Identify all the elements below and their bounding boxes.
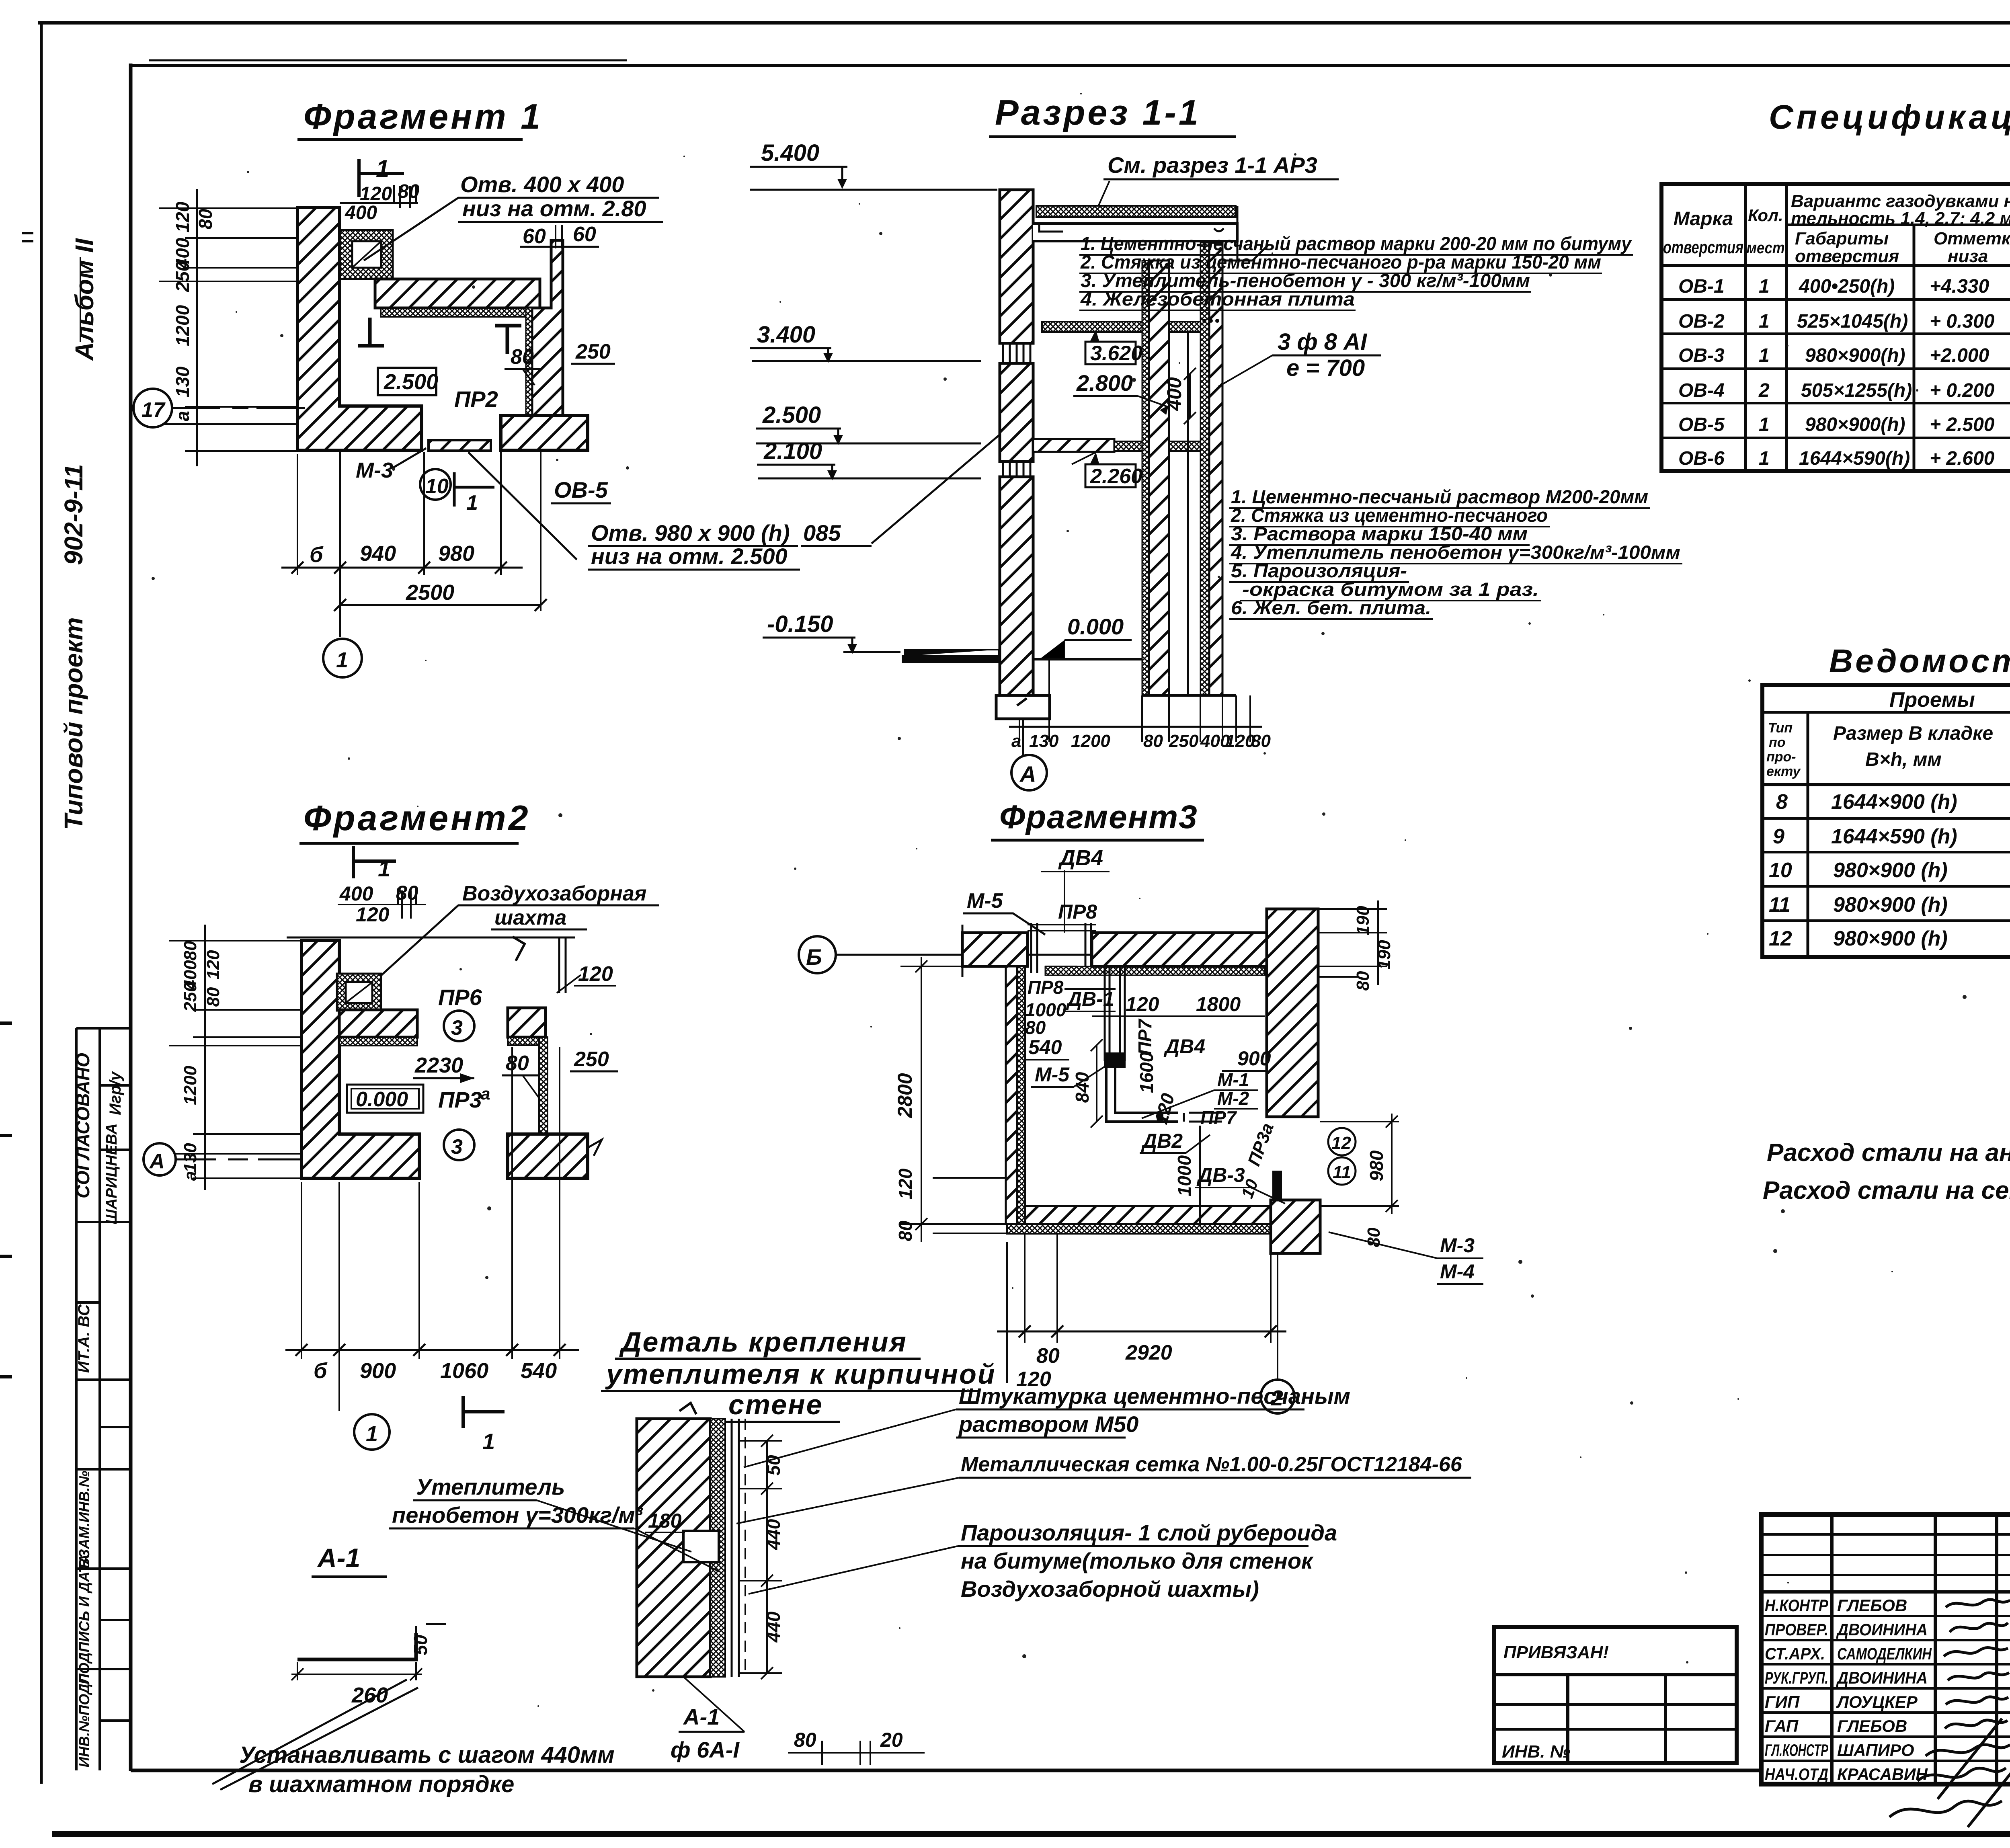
- svg-text:ОВ-6: ОВ-6: [1678, 448, 1725, 469]
- drawing frame left: [129, 64, 133, 1771]
- svg-text:САМОДЕЛКИН: САМОДЕЛКИН: [1837, 1644, 1932, 1663]
- left margin stamp column: [76, 1028, 131, 1770]
- svg-text:1644×900 (h): 1644×900 (h): [1831, 790, 1957, 814]
- svg-text:80: 80: [1036, 1344, 1060, 1368]
- svg-text:ПР3: ПР3: [438, 1087, 482, 1112]
- svg-text:+ 0.200: + 0.200: [1930, 380, 1995, 401]
- svg-text:1800: 1800: [1196, 993, 1241, 1015]
- PR6 lintel: [339, 1010, 417, 1037]
- svg-text:М-5: М-5: [967, 889, 1003, 913]
- svg-text:2.500: 2.500: [384, 370, 438, 394]
- left wall + bottom bar: [301, 941, 419, 1178]
- svg-text:-0.150: -0.150: [767, 611, 833, 637]
- svg-text:900: 900: [360, 1359, 396, 1383]
- plaster lines: [732, 1419, 739, 1677]
- bottom dim extension lines: [1019, 659, 1250, 742]
- svg-text:5.400: 5.400: [761, 140, 819, 166]
- svg-text:ДВ-3: ДВ-3: [1196, 1164, 1245, 1186]
- svg-text:1: 1: [366, 1422, 378, 1446]
- svg-text:ДВ2: ДВ2: [1141, 1130, 1183, 1152]
- svg-text:Б: Б: [806, 944, 822, 970]
- svg-text:Отметка: Отметка: [1934, 229, 2010, 248]
- drawing frame bottom: [131, 1769, 1762, 1772]
- svg-text:про-: про-: [1766, 749, 1796, 765]
- svg-text:120: 120: [1225, 731, 1255, 751]
- elevation 3.620: [1085, 342, 1136, 364]
- svg-text:в шахматном порядке: в шахматном порядке: [248, 1771, 514, 1797]
- right wall layered assembly: [1142, 260, 1149, 695]
- svg-text:М-1: М-1: [1217, 1069, 1249, 1090]
- svg-text:низа: низа: [1948, 246, 1988, 266]
- svg-text:980: 980: [1366, 1150, 1387, 1181]
- right wall: [532, 240, 563, 416]
- svg-text:2500: 2500: [406, 580, 454, 605]
- svg-text:1: 1: [1759, 276, 1770, 297]
- axis circle 1: [354, 1414, 390, 1450]
- corner marks: [358, 318, 384, 346]
- svg-text:980×900 (h): 980×900 (h): [1833, 859, 1948, 882]
- svg-text:440: 440: [763, 1519, 784, 1550]
- svg-text:Отв. 980 х 900 (h): Отв. 980 х 900 (h): [591, 520, 790, 546]
- svg-text:ГЛЕБОВ: ГЛЕБОВ: [1837, 1596, 1907, 1615]
- svg-text:шахта: шахта: [494, 906, 566, 929]
- svg-text:525×1045(h): 525×1045(h): [1797, 311, 1908, 332]
- circled 12 / 11: [1328, 1128, 1356, 1155]
- svg-text:+ 0.300: + 0.300: [1930, 311, 1995, 332]
- svg-text:А: А: [1019, 761, 1036, 787]
- circled 10 flag: [420, 469, 451, 500]
- M-3 plate strip: [429, 440, 491, 451]
- elevation box 2.500: [378, 368, 436, 395]
- svg-text:3.620: 3.620: [1090, 342, 1142, 365]
- svg-text:Воздухозаборная: Воздухозаборная: [462, 882, 646, 905]
- svg-text:1: 1: [1759, 345, 1770, 366]
- bottom wall: [1025, 1206, 1271, 1224]
- svg-text:ПР6: ПР6: [438, 985, 482, 1010]
- svg-text:440: 440: [763, 1611, 784, 1643]
- svg-text:стене: стене: [728, 1389, 823, 1420]
- svg-text:250: 250: [180, 982, 200, 1012]
- svg-text:1600: 1600: [1136, 1052, 1157, 1093]
- svg-text:085: 085: [803, 520, 841, 546]
- svg-text:120: 120: [360, 183, 392, 205]
- svg-text:80: 80: [895, 1220, 916, 1241]
- svg-text:ОВ-3: ОВ-3: [1678, 345, 1725, 366]
- svg-text:130: 130: [172, 366, 193, 397]
- svg-text:250: 250: [1169, 731, 1199, 751]
- svg-text:отверстия: отверстия: [1795, 246, 1899, 266]
- svg-text:М-5: М-5: [1035, 1063, 1070, 1086]
- svg-text:120: 120: [203, 950, 223, 980]
- slanted leaders: [212, 1680, 418, 1790]
- svg-text:20: 20: [880, 1729, 903, 1751]
- svg-text:2.500: 2.500: [762, 402, 821, 428]
- svg-text:ПРОВЕР.: ПРОВЕР.: [1765, 1620, 1828, 1639]
- signatures squiggles: [1889, 1600, 2010, 1827]
- wall footing: [996, 695, 1050, 719]
- svg-text:ГЛЕБОВ: ГЛЕБОВ: [1837, 1717, 1907, 1735]
- svg-text:ПР8: ПР8: [1058, 900, 1097, 923]
- svg-text:2230: 2230: [414, 1053, 463, 1077]
- svg-text:80: 80: [1353, 971, 1373, 991]
- svg-text:+ 2.600: + 2.600: [1930, 448, 1995, 469]
- svg-text:130: 130: [1029, 731, 1059, 751]
- svg-text:Фрагмент3: Фрагмент3: [999, 799, 1198, 835]
- svg-text:а: а: [172, 411, 193, 421]
- svg-text:12: 12: [1331, 1133, 1351, 1153]
- axis circle A: [144, 1143, 176, 1175]
- brick wall hatched: [637, 1419, 710, 1677]
- svg-text:+4.330: +4.330: [1930, 276, 1989, 297]
- svg-text:2.100: 2.100: [763, 438, 822, 464]
- svg-text:КРАСАВИН: КРАСАВИН: [1837, 1765, 1928, 1784]
- lintel bar over room: [375, 279, 540, 308]
- svg-text:12: 12: [1769, 927, 1792, 950]
- svg-text:3.400: 3.400: [757, 322, 815, 348]
- svg-text:ЛОУЦКЕР: ЛОУЦКЕР: [1836, 1692, 1918, 1711]
- svg-text:980×900 (h): 980×900 (h): [1833, 927, 1948, 950]
- data rows: [1678, 276, 2010, 469]
- svg-text:Расход стали на анкера А-1: Расход стали на анкера А-1 - 20кг: [1767, 1139, 2010, 1167]
- svg-text:ДВОИНИНА: ДВОИНИНА: [1836, 1620, 1928, 1639]
- svg-text:Вариантс газодувками на произв: Вариантс газодувками на произвоби-: [1791, 191, 2010, 211]
- svg-text:1644×590(h): 1644×590(h): [1799, 448, 1910, 469]
- svg-text:б: б: [310, 543, 324, 567]
- sheet outer border top: [38, 21, 2010, 25]
- svg-text:ШАПИРО: ШАПИРО: [1837, 1741, 1914, 1760]
- bottom right block: [1271, 1200, 1320, 1253]
- svg-text:0.000: 0.000: [356, 1088, 408, 1111]
- svg-text:Ведомость проемов ворот и двер: Ведомость проемов ворот и дверей: [1829, 643, 2010, 679]
- window tick marks in wall gaps: [1003, 344, 1030, 363]
- ground line under right wall: [1142, 694, 1236, 697]
- svg-text:250: 250: [574, 1048, 609, 1071]
- inner insulation strip under top wall: [1045, 966, 1265, 975]
- right 980 dim: [1320, 1122, 1399, 1206]
- roof slab: [1036, 206, 1236, 217]
- left wall: [1006, 966, 1017, 1224]
- svg-text:400: 400: [345, 202, 377, 224]
- svg-text:250: 250: [575, 340, 611, 363]
- svg-text:1: 1: [376, 155, 389, 182]
- axis circle B: [799, 936, 836, 973]
- svg-text:190: 190: [1374, 940, 1394, 970]
- svg-text:НАЧ.ОТД: НАЧ.ОТД: [1765, 1765, 1828, 1784]
- svg-text:980×900(h): 980×900(h): [1805, 345, 1905, 366]
- svg-text:8: 8: [1776, 790, 1788, 814]
- svg-text:1644×590 (h): 1644×590 (h): [1831, 825, 1957, 848]
- svg-text:1000: 1000: [1174, 1155, 1195, 1196]
- svg-text:400•250(h): 400•250(h): [1799, 276, 1895, 297]
- sheet bottom thick line: [52, 1831, 2010, 1837]
- svg-text:1: 1: [1759, 311, 1770, 332]
- left dimension stack: [159, 208, 297, 451]
- svg-text:Пароизоляция- 1 слой рубероида: Пароизоляция- 1 слой рубероида: [961, 1520, 1337, 1545]
- svg-text:СОГЛАСОВАНО: СОГЛАСОВАНО: [72, 1053, 93, 1198]
- svg-text:3: 3: [451, 1016, 463, 1040]
- svg-text:на битуме(только для стенок: на битуме(только для стенок: [961, 1548, 1314, 1573]
- svg-text:Устанавливать с шагом 440мм: Устанавливать с шагом 440мм: [239, 1742, 615, 1768]
- svg-text:2: 2: [1758, 380, 1770, 401]
- svg-text:1: 1: [378, 856, 390, 881]
- bottom right block: [501, 416, 588, 450]
- svg-text:мест: мест: [1747, 239, 1785, 257]
- left dims: [900, 966, 1006, 1233]
- svg-text:утеплителя к кирпичной: утеплителя к кирпичной: [605, 1358, 996, 1390]
- svg-text:11: 11: [1769, 893, 1791, 917]
- svg-text:120: 120: [1126, 993, 1159, 1015]
- svg-text:М-4: М-4: [1440, 1260, 1475, 1283]
- svg-text:ДВ4: ДВ4: [1058, 846, 1103, 870]
- svg-text:2800: 2800: [894, 1073, 916, 1118]
- svg-text:1200: 1200: [172, 305, 193, 346]
- svg-text:980: 980: [438, 541, 474, 566]
- svg-text:ИНВ.№ПОДЛ: ИНВ.№ПОДЛ: [76, 1673, 92, 1768]
- svg-text:1200: 1200: [1071, 731, 1110, 751]
- svg-text:+ 2.500: + 2.500: [1930, 414, 1995, 435]
- insulation ring around 400x400 opening: [340, 230, 393, 279]
- svg-text:17: 17: [142, 398, 166, 422]
- svg-text:940: 940: [360, 541, 396, 566]
- svg-text:Расход стали на сетки по ГОСТ1: Расход стали на сетки по ГОСТ12184-66- 4…: [1763, 1177, 2010, 1204]
- svg-text:См. разрез 1-1 АР3: См. разрез 1-1 АР3: [1108, 152, 1317, 178]
- svg-text:80: 80: [1025, 1017, 1046, 1038]
- svg-text:тельность 1.4, 2.7: 4.2 м³/сут: тельность 1.4, 2.7: 4.2 м³/сутки: [1791, 209, 2010, 228]
- svg-text:отверстия: отверстия: [1663, 238, 1743, 257]
- svg-text:ГИП: ГИП: [1765, 1692, 1800, 1711]
- svg-text:Деталь крепления: Деталь крепления: [619, 1326, 907, 1358]
- svg-text:80: 80: [195, 209, 216, 230]
- svg-text:ПР7: ПР7: [1134, 1018, 1155, 1055]
- svg-text:80: 80: [180, 941, 200, 960]
- svg-text:1200: 1200: [180, 1066, 200, 1105]
- svg-text:505×1255(h): 505×1255(h): [1801, 380, 1912, 401]
- svg-text:ГАП: ГАП: [1765, 1717, 1799, 1735]
- svg-text:80: 80: [1251, 731, 1271, 751]
- roles: [1765, 1596, 1932, 1784]
- elevation 2.260: [1085, 464, 1136, 487]
- svg-text:ИТ.А. ВС: ИТ.А. ВС: [75, 1304, 93, 1373]
- svg-text:низ на отм. 2.80: низ на отм. 2.80: [462, 196, 646, 221]
- svg-text:Спецификация отверстий: Спецификация отверстий: [1769, 98, 2010, 136]
- svg-text:1060: 1060: [440, 1359, 488, 1383]
- svg-text:260: 260: [351, 1683, 388, 1707]
- svg-text:ОВ-5: ОВ-5: [554, 477, 608, 503]
- svg-text:Фрагмент 1: Фрагмент 1: [304, 96, 543, 136]
- svg-text:1: 1: [466, 491, 478, 515]
- svg-text:Н.КОНТР: Н.КОНТР: [1765, 1596, 1829, 1615]
- right thin wall top: [559, 937, 566, 993]
- svg-text:ОВ-1: ОВ-1: [1678, 276, 1725, 297]
- svg-text:а: а: [1011, 731, 1021, 751]
- svg-text:по: по: [1769, 735, 1786, 750]
- right top dims: [1318, 909, 1387, 977]
- svg-text:низ на отм. 2.500: низ на отм. 2.500: [591, 544, 788, 569]
- svg-text:ДВОИНИНА: ДВОИНИНА: [1836, 1668, 1928, 1687]
- interior L duct: [1106, 1068, 1178, 1122]
- svg-text:2920: 2920: [1125, 1341, 1172, 1364]
- left wall with bottom bar (hatched): [297, 207, 422, 450]
- svg-text:Утеплитель: Утеплитель: [416, 1474, 565, 1499]
- svg-text:е = 700: е = 700: [1286, 355, 1365, 381]
- svg-text:400: 400: [1163, 377, 1185, 411]
- svg-text:120: 120: [172, 201, 193, 232]
- 0.000 box: [347, 1085, 423, 1113]
- svg-text:902-9-11: 902-9-11: [59, 464, 88, 565]
- svg-text:А-1: А-1: [317, 1543, 360, 1573]
- axis circle 2: [1277, 1253, 1278, 1380]
- svg-text:Тип: Тип: [1768, 720, 1793, 736]
- top wall line: [287, 937, 575, 939]
- svg-text:1: 1: [1759, 448, 1770, 469]
- bottom dims: [301, 1047, 560, 1411]
- middle slab: [1033, 439, 1114, 452]
- svg-text:ПР2: ПР2: [454, 386, 498, 412]
- svg-text:а: а: [180, 1171, 200, 1181]
- svg-text:50: 50: [410, 1635, 431, 1655]
- axis circle 17: [133, 389, 172, 427]
- svg-text:М-3: М-3: [356, 458, 393, 482]
- right dims: [740, 1441, 782, 1673]
- svg-text:3: 3: [451, 1135, 463, 1159]
- svg-text:Штукатурка цементно-песчаным: Штукатурка цементно-песчаным: [959, 1383, 1350, 1409]
- svg-text:980×900 (h): 980×900 (h): [1833, 893, 1948, 917]
- svg-text:900: 900: [1237, 1047, 1271, 1070]
- fold marks left edge: [0, 1023, 12, 1377]
- svg-text:В×h, мм: В×h, мм: [1865, 749, 1942, 770]
- ground ledge left: [902, 650, 999, 662]
- left dim extension lines: [169, 941, 301, 1178]
- svg-text:ПРИВЯЗАН!: ПРИВЯЗАН!: [1503, 1643, 1609, 1662]
- svg-text:840: 840: [1072, 1072, 1093, 1103]
- svg-text:ОВ-4: ОВ-4: [1678, 380, 1725, 401]
- svg-text:М-3: М-3: [1440, 1234, 1475, 1257]
- svg-text:1: 1: [1759, 414, 1770, 435]
- svg-text:+2.000: +2.000: [1930, 345, 1989, 366]
- svg-text:Металлическая сетка №1.00-0.25: Металлическая сетка №1.00-0.25ГОСТ12184-…: [961, 1453, 1462, 1476]
- 80 20 dims bottom: [788, 1752, 925, 1754]
- bottom section flag: [463, 1396, 505, 1428]
- svg-text:9: 9: [1773, 825, 1784, 848]
- svg-text:Отв. 400 х 400: Отв. 400 х 400: [460, 172, 624, 197]
- svg-text:80: 80: [511, 345, 534, 369]
- bottom right block: [508, 1134, 588, 1178]
- right side stub + strip: [508, 1008, 546, 1037]
- svg-text:Кол.: Кол.: [1748, 206, 1783, 225]
- svg-text:0.000: 0.000: [1067, 614, 1124, 639]
- svg-text:1: 1: [482, 1429, 495, 1454]
- top right column: [1267, 909, 1318, 1117]
- svg-text:Размер В кладке: Размер В кладке: [1833, 723, 1993, 744]
- svg-text:Марка: Марка: [1674, 208, 1733, 230]
- svg-text:Типовой проект: Типовой проект: [59, 617, 88, 830]
- axis circle 1: [323, 639, 362, 677]
- anchor notch: [683, 1531, 719, 1562]
- anchor drawing: [297, 1633, 416, 1659]
- top wall right part: [1092, 933, 1267, 966]
- axis circle A: [1022, 720, 1024, 755]
- shaft insulation ring: [337, 974, 381, 1011]
- svg-text:80: 80: [794, 1729, 816, 1751]
- svg-text:80: 80: [506, 1052, 529, 1075]
- svg-text:540: 540: [521, 1359, 557, 1383]
- svg-text:Игр/у: Игр/у: [107, 1071, 124, 1115]
- svg-text:А-1: А-1: [683, 1704, 720, 1729]
- svg-text:ДВ-1: ДВ-1: [1066, 988, 1114, 1010]
- svg-text:ф 6А-I: ф 6А-I: [671, 1737, 740, 1762]
- svg-text:980×900(h): 980×900(h): [1805, 414, 1905, 435]
- svg-text:80: 80: [203, 987, 223, 1007]
- drawing frame top: [131, 64, 2010, 67]
- intermediate slab top (crosshatch): [1042, 322, 1222, 332]
- svg-text:120: 120: [578, 962, 613, 986]
- svg-text:60: 60: [523, 225, 546, 248]
- table grid: [1661, 184, 2010, 471]
- svg-text:Воздухозаборной шахты): Воздухозаборной шахты): [961, 1576, 1259, 1602]
- svg-text:Габариты: Габариты: [1795, 229, 1889, 248]
- svg-text:3 ф 8 АI: 3 ф 8 АI: [1278, 329, 1368, 355]
- svg-text:2.800: 2.800: [1076, 370, 1133, 396]
- svg-text:ОВ-5: ОВ-5: [1678, 414, 1725, 435]
- svg-text:Проемы: Проемы: [1889, 688, 1975, 712]
- svg-text:11: 11: [1333, 1163, 1351, 1182]
- svg-text:ШАРИЦНЕВА: ШАРИЦНЕВА: [103, 1123, 120, 1224]
- svg-text:10: 10: [425, 475, 449, 498]
- left wall pieces (hatched): [1000, 190, 1033, 343]
- svg-text:Фрагмент2: Фрагмент2: [304, 798, 531, 838]
- sheet outer border left: [40, 23, 43, 1784]
- svg-text:Разрез 1-1: Разрез 1-1: [995, 92, 1201, 132]
- svg-text:130: 130: [180, 1143, 200, 1173]
- svg-text:60: 60: [573, 223, 596, 246]
- svg-text:Альбом II: Альбом II: [70, 238, 99, 361]
- svg-text:ПОДПИСЬ И ДАТА: ПОДПИСЬ И ДАТА: [76, 1554, 92, 1684]
- bottom dims: [1007, 1233, 1271, 1383]
- svg-text:раствором М50: раствором М50: [958, 1411, 1138, 1437]
- svg-text:СТ.АРХ.: СТ.АРХ.: [1765, 1644, 1825, 1663]
- svg-text:ОВ-2: ОВ-2: [1678, 311, 1725, 332]
- svg-text:РУК.ГРУП.: РУК.ГРУП.: [1765, 1668, 1828, 1687]
- rebar dots: [1202, 319, 1206, 323]
- svg-text:екту: екту: [1766, 764, 1801, 779]
- svg-text:120: 120: [356, 903, 390, 926]
- svg-text:ПР8: ПР8: [1028, 977, 1064, 998]
- section cut flag top: [359, 159, 404, 197]
- svg-text:80: 80: [396, 882, 418, 904]
- top wall left part: [962, 933, 1028, 966]
- svg-text:б: б: [314, 1359, 328, 1383]
- insulation layer: [710, 1419, 725, 1677]
- svg-text:190: 190: [1353, 906, 1373, 935]
- svg-text:ВЗАМ.ИНВ.№: ВЗАМ.ИНВ.№: [76, 1471, 92, 1568]
- interior duct vertical: [1105, 966, 1125, 1061]
- bottom dims: [297, 452, 501, 637]
- svg-text:80: 80: [1143, 731, 1163, 751]
- svg-text:400: 400: [339, 882, 373, 905]
- svg-text:2.260: 2.260: [1090, 465, 1142, 488]
- top duct PR8: [1031, 923, 1091, 973]
- svg-text:ГЛ.КОНСТР: ГЛ.КОНСТР: [1765, 1741, 1829, 1760]
- svg-text:а: а: [481, 1084, 490, 1103]
- svg-text:ИНВ. №: ИНВ. №: [1502, 1742, 1570, 1762]
- svg-text:ДВ4: ДВ4: [1163, 1035, 1205, 1058]
- svg-text:А: А: [149, 1150, 165, 1173]
- svg-text:ПР7: ПР7: [1200, 1107, 1237, 1128]
- svg-text:250: 250: [172, 261, 193, 292]
- svg-text:540: 540: [1028, 1036, 1062, 1058]
- svg-text:10: 10: [1769, 859, 1792, 882]
- svg-text:120: 120: [895, 1168, 916, 1199]
